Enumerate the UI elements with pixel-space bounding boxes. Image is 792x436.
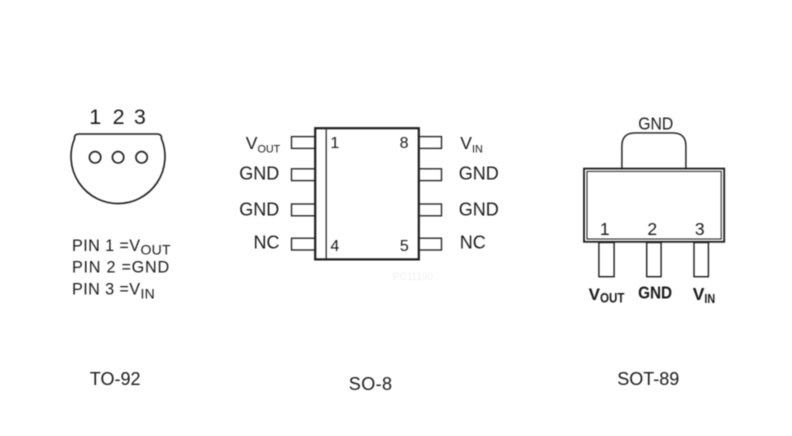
svg-text:3: 3: [134, 105, 146, 129]
SOT-89 body inner line: [587, 171, 721, 239]
svg-text:1: 1: [330, 135, 339, 152]
svg-text:1: 1: [600, 219, 610, 239]
SOT-89 body: [584, 169, 724, 242]
svg-text:PC11190: PC11190: [393, 271, 433, 283]
TO-92 pin numbers 1 2 3: [89, 105, 146, 129]
svg-text:4: 4: [330, 238, 339, 255]
SO-8 pin 8 lead: [418, 137, 442, 149]
SO-8 pin1 side marker line: [325, 129, 327, 259]
svg-text:VOUT: VOUT: [246, 133, 281, 156]
svg-text:NC: NC: [460, 232, 486, 252]
svg-text:GND: GND: [638, 114, 673, 134]
TO-92 lead hole 3: [136, 152, 147, 163]
svg-text:3: 3: [695, 219, 705, 239]
TO-92 lead hole 1: [89, 152, 100, 163]
svg-text:2: 2: [113, 105, 125, 129]
svg-text:PIN 3 =VIN: PIN 3 =VIN: [72, 281, 155, 302]
svg-text:GND: GND: [239, 164, 279, 184]
SO-8 pin 5 lead: [418, 238, 442, 250]
svg-text:5: 5: [400, 238, 409, 255]
svg-text:GND: GND: [459, 164, 499, 184]
svg-text:PIN 2 =GND: PIN 2 =GND: [72, 259, 170, 277]
SO-8 pin 4 lead: [292, 238, 316, 250]
svg-text:SO-8: SO-8: [349, 374, 393, 394]
svg-text:VOUT: VOUT: [589, 285, 625, 305]
SO-8 pin 2 lead: [292, 169, 316, 181]
TO-92 lead hole 2: [112, 152, 123, 163]
svg-text:2: 2: [647, 219, 657, 239]
SOT-89 lead 1: [599, 243, 614, 277]
SOT-89 lead 3: [694, 243, 708, 277]
SO-8 pin 3 lead: [292, 204, 316, 216]
svg-text:VIN: VIN: [693, 284, 715, 306]
SO-8 body: [315, 128, 419, 259]
svg-text:SOT-89: SOT-89: [617, 369, 679, 389]
svg-text:GND: GND: [638, 283, 672, 303]
svg-text:8: 8: [400, 135, 409, 152]
svg-text:TO-92: TO-92: [90, 369, 141, 389]
svg-text:GND: GND: [459, 200, 499, 220]
SOT-89 tab outline: [622, 133, 686, 169]
svg-text:VIN: VIN: [460, 133, 483, 156]
SO-8 pin 6 lead: [418, 204, 442, 216]
svg-text:1: 1: [89, 105, 101, 129]
TO-92 package outline: [71, 134, 165, 204]
svg-text:PIN 1 =VOUT: PIN 1 =VOUT: [72, 237, 171, 258]
SO-8 pin 7 lead: [418, 169, 442, 181]
SOT-89 lead 2: [647, 243, 661, 277]
SO-8 pin 1 lead: [292, 137, 316, 149]
svg-text:NC: NC: [254, 232, 280, 252]
svg-text:GND: GND: [239, 200, 279, 220]
